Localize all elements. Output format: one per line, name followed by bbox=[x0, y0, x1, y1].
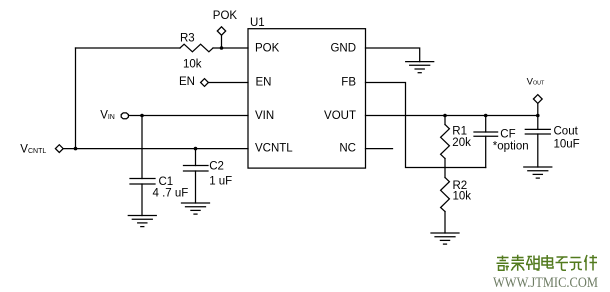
capacitor CF bbox=[474, 116, 498, 168]
wire NC pin stub bbox=[366, 148, 393, 150]
ground under C2 bbox=[182, 203, 210, 214]
wire left vertical down to VCNTL line bbox=[75, 48, 77, 149]
junction dot POK/R3 bbox=[220, 46, 224, 50]
wire FB pin to divider bbox=[366, 83, 486, 168]
svg-text:U1: U1 bbox=[250, 17, 265, 29]
node EN diamond bbox=[201, 79, 209, 87]
svg-text:CF: CF bbox=[500, 129, 515, 141]
svg-text:EN: EN bbox=[256, 77, 272, 89]
svg-text:10k: 10k bbox=[183, 58, 202, 70]
resistor R1 bbox=[441, 116, 450, 168]
svg-text:VIN: VIN bbox=[255, 110, 274, 122]
wire VCNTL horizontal bbox=[63, 148, 248, 150]
node VIN port bbox=[121, 113, 128, 119]
wire R3 to POK pin bbox=[213, 47, 248, 49]
ground under R2 bbox=[431, 233, 459, 244]
wire GND pin to ground bbox=[366, 48, 420, 62]
svg-text:FB: FB bbox=[341, 77, 356, 89]
node VOUT stem bbox=[537, 103, 539, 115]
svg-text:R1: R1 bbox=[452, 126, 467, 138]
junction dot R3/VCNTL bbox=[74, 147, 78, 151]
svg-text:VIN: VIN bbox=[100, 110, 115, 122]
junction dot VCNTL/C2 bbox=[194, 147, 198, 151]
junction dot VOUT/R1 bbox=[443, 114, 447, 118]
node VOUT diamond bbox=[533, 95, 542, 104]
svg-text:VOUT: VOUT bbox=[324, 110, 356, 122]
IC U1 bbox=[248, 29, 366, 168]
capacitor Cout bbox=[525, 116, 550, 168]
wire VIN to pin bbox=[128, 115, 248, 117]
svg-text:Cout: Cout bbox=[554, 126, 579, 138]
svg-text:POK: POK bbox=[213, 10, 238, 22]
junction dot VIN/C1 bbox=[140, 114, 144, 118]
wire C2 drop from VCNTL line bbox=[195, 149, 197, 166]
svg-text:WWW.JTMIC.COM: WWW.JTMIC.COM bbox=[493, 275, 598, 291]
resistor R2 bbox=[441, 168, 450, 234]
svg-text:*option: *option bbox=[493, 140, 529, 152]
wire VOUT pin rail bbox=[366, 115, 538, 117]
svg-text:R3: R3 bbox=[180, 33, 195, 45]
svg-text:VCNTL: VCNTL bbox=[255, 142, 293, 154]
junction dot VOUT/CF bbox=[484, 114, 488, 118]
svg-text:C1: C1 bbox=[159, 176, 174, 188]
svg-text:1 uF: 1 uF bbox=[209, 175, 232, 187]
svg-text:10uF: 10uF bbox=[554, 139, 580, 151]
ground under Cout bbox=[524, 167, 552, 178]
svg-text:20k: 20k bbox=[452, 137, 471, 149]
node POK stem bbox=[221, 35, 223, 48]
ground at GND pin bbox=[406, 62, 434, 73]
svg-text:POK: POK bbox=[255, 42, 280, 54]
svg-text:VCNTL: VCNTL bbox=[20, 144, 46, 156]
svg-text:NC: NC bbox=[339, 142, 356, 154]
capacitor C2 bbox=[184, 166, 209, 204]
svg-text:10k: 10k bbox=[453, 191, 472, 203]
junction dot VOUT/Cout bbox=[536, 114, 540, 118]
wire EN to pin bbox=[209, 82, 249, 84]
wire R3 left to vertical corner bbox=[76, 47, 181, 49]
svg-text:C2: C2 bbox=[209, 161, 224, 173]
wire VIN drop to C1 bbox=[141, 116, 143, 179]
svg-text:EN: EN bbox=[179, 76, 195, 88]
capacitor C1 bbox=[130, 179, 155, 216]
resistor R3 bbox=[180, 44, 213, 52]
node POK diamond bbox=[217, 27, 225, 35]
node VCNTL diamond bbox=[55, 145, 63, 153]
ground under C1 bbox=[128, 216, 156, 227]
watermark chinese characters bbox=[497, 255, 598, 271]
svg-text:VOUT: VOUT bbox=[527, 76, 545, 87]
svg-text:GND: GND bbox=[330, 42, 356, 54]
svg-text:4 .7 uF: 4 .7 uF bbox=[153, 188, 189, 200]
